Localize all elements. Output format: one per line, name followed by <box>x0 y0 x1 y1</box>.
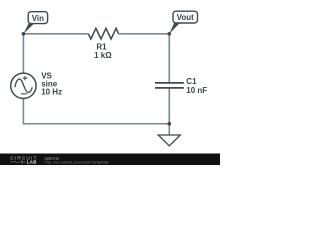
watermark logo squiggle <box>11 161 26 164</box>
node Vin flag tail <box>23 23 34 33</box>
node B junction dot (Vout) <box>167 32 171 36</box>
VS minus sign <box>21 93 27 95</box>
capacitor C1 bottom plate <box>155 87 184 89</box>
node A junction dot (Vin) <box>22 32 26 36</box>
node Vin flag box <box>28 12 47 24</box>
wire: left vertical lower (VS bottom to bottom rail) <box>22 99 24 125</box>
wire: top rail left segment (node A to R1) <box>23 33 88 35</box>
svg-text:10 Hz: 10 Hz <box>41 87 62 96</box>
VS sine squiggle <box>15 79 32 93</box>
voltage source VS circle <box>11 73 36 98</box>
VS plus sign <box>23 76 28 80</box>
capacitor C1 top plate <box>155 82 184 84</box>
watermark band <box>0 154 220 166</box>
svg-text:http://circuitlab.com/cyhk75sf: http://circuitlab.com/cyhk75sfqf63w <box>45 160 110 164</box>
wire: top rail right segment (R1 to node B) <box>119 33 170 35</box>
svg-text:Vin: Vin <box>32 14 44 23</box>
svg-text:10 nF: 10 nF <box>186 86 207 95</box>
wire: right vertical lower (C1 to bottom node) <box>168 89 170 125</box>
node Vout flag tail <box>169 23 180 34</box>
resistor R1 zigzag <box>88 28 118 39</box>
wire: left vertical upper (node A to VS top) <box>22 34 24 73</box>
svg-text:1 kΩ: 1 kΩ <box>94 51 112 60</box>
svg-text:LAB: LAB <box>27 160 37 165</box>
wire: bottom rail <box>23 123 169 125</box>
ground symbol <box>158 135 180 146</box>
wire: right vertical upper (node B to C1) <box>168 34 170 82</box>
svg-text:Vout: Vout <box>177 13 195 22</box>
node Vout flag box <box>173 11 198 23</box>
svg-text:R1: R1 <box>96 42 107 51</box>
bottom junction dot (ground node) <box>167 122 171 126</box>
svg-text:C1: C1 <box>186 77 197 86</box>
wire: ground stub <box>168 124 170 135</box>
